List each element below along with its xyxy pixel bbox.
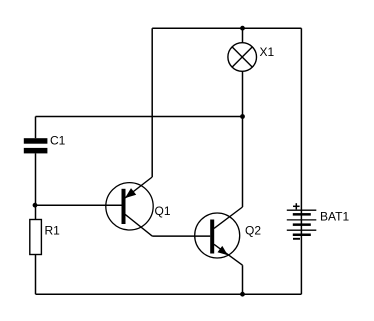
wire right rail (battery branch) xyxy=(300,28,302,294)
svg-text:R1: R1 xyxy=(45,224,61,238)
svg-text:BAT1: BAT1 xyxy=(320,210,349,224)
wire top rail xyxy=(152,27,301,29)
transistor Q1 (PNP) xyxy=(106,177,153,236)
wire mid rail to C1 xyxy=(36,116,243,118)
battery BAT1 xyxy=(287,203,317,239)
wire Q2 collector riser xyxy=(242,117,244,208)
svg-text:C1: C1 xyxy=(50,134,66,148)
wire R1 bottom lead xyxy=(35,255,37,295)
lamp X1 xyxy=(228,43,257,72)
wire C1 top lead xyxy=(35,117,37,139)
wire lamp bottom lead xyxy=(242,71,244,116)
node junction mid rail / lamp / Q2 collector xyxy=(240,114,245,119)
svg-text:X1: X1 xyxy=(260,45,275,59)
wire bottom rail xyxy=(36,293,302,295)
node junction top rail / lamp xyxy=(240,26,245,31)
svg-text:Q2: Q2 xyxy=(245,224,261,238)
transistor Q2 (NPN) xyxy=(195,207,243,265)
wire Q1 collector to Q2 base xyxy=(152,235,210,237)
wire lamp top lead xyxy=(242,28,244,43)
wire C1 bottom lead xyxy=(35,153,37,205)
svg-text:Q1: Q1 xyxy=(155,204,171,218)
node junction C1 / R1 / Q1 base xyxy=(33,203,38,208)
capacitor C1 xyxy=(24,138,48,153)
wire left riser (top rail down to Q1 emitter) xyxy=(151,28,153,177)
wire Q2 emitter drop xyxy=(242,265,244,294)
wire Q1 base wire xyxy=(36,204,122,206)
node junction Q2 emitter / bottom rail xyxy=(240,292,245,297)
resistor R1 xyxy=(30,220,42,255)
wire R1 top lead xyxy=(35,205,37,219)
